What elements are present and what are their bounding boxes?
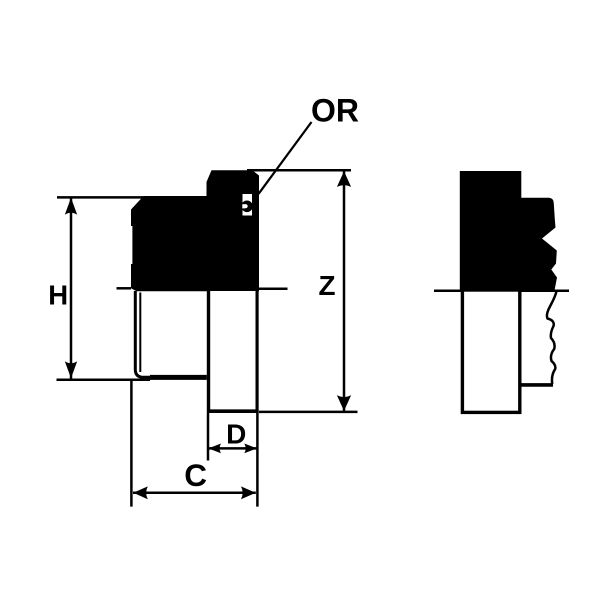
svg-text:H: H: [48, 279, 68, 310]
OR leader line: [259, 122, 312, 194]
broken thread bottom edge (right view): [520, 383, 554, 387]
svg-text:C: C: [184, 457, 207, 493]
thread inner double line: [139, 293, 141, 373]
fitting body (right view, black silhouette): [460, 171, 557, 292]
Z extension line bottom: [259, 411, 358, 414]
svg-text:OR: OR: [311, 93, 359, 129]
surface line left view: [117, 287, 132, 290]
H dimension line: [70, 197, 73, 378]
H extension line top: [57, 196, 150, 199]
Z dimension line: [343, 170, 346, 412]
D arrow right: [244, 444, 257, 454]
pipe stub (left view): [207, 291, 259, 412]
Z arrow top: [337, 171, 351, 187]
svg-text:Z: Z: [319, 270, 336, 301]
svg-text:D: D: [226, 418, 246, 449]
fitting body (left view, black silhouette): [131, 170, 259, 291]
H arrow top: [65, 198, 77, 215]
O-ring cross-section: [241, 201, 253, 213]
surface line right view: [434, 289, 569, 292]
D dimension line: [209, 447, 257, 450]
O-ring groove: [243, 194, 253, 216]
C arrow right: [241, 486, 256, 499]
pipe stub (right view): [462, 290, 519, 412]
Z extension line top: [247, 169, 351, 172]
D extension line left: [207, 413, 210, 461]
body edge highlight: [131, 226, 133, 264]
C dimension line: [133, 492, 256, 495]
H arrow bottom: [65, 361, 77, 378]
H extension line bottom: [57, 379, 151, 382]
thread bottom thick edge: [150, 375, 207, 380]
Z arrow bottom: [337, 395, 351, 411]
C extension line left: [130, 381, 133, 507]
break wavy line (right view): [547, 292, 557, 385]
threaded portion outline: [135, 291, 207, 377]
D arrow left: [208, 444, 221, 454]
C arrow left: [133, 486, 148, 499]
C extension line right: [256, 291, 259, 507]
